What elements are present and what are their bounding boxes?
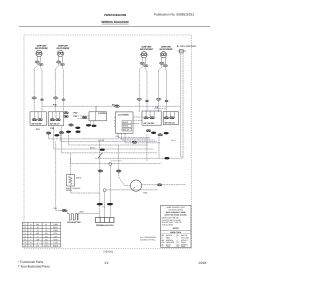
svg-text:INF SW LF: INF SW LF	[50, 123, 61, 126]
svg-text:BK-12: BK-12	[112, 103, 119, 106]
svg-text:LT-R: LT-R	[54, 242, 59, 245]
svg-text:TERMINAL BLOCK: TERMINAL BLOCK	[96, 224, 115, 227]
svg-text:WIRING DIAGRAM: WIRING DIAGRAM	[101, 20, 129, 24]
svg-text:MUST BE SAME GAUGE: MUST BE SAME GAUGE	[165, 213, 188, 216]
svg-text:TOD-LAMP ASSY: TOD-LAMP ASSY	[180, 45, 197, 48]
svg-text:P13: P13	[116, 135, 119, 138]
svg-text:0298: 0298	[199, 261, 207, 265]
svg-text:6: 6	[25, 238, 26, 241]
svg-text:W: W	[37, 226, 39, 229]
svg-text:4: 4	[25, 232, 26, 235]
svg-text:VWEF3024KWB: VWEF3024KWB	[104, 13, 127, 17]
svg-text:WIRE CODE: WIRE CODE	[170, 231, 182, 234]
svg-text:P31: P31	[36, 128, 40, 131]
svg-text:CLK/TIMER: CLK/TIMER	[118, 113, 129, 116]
svg-text:P24: P24	[53, 207, 57, 210]
svg-text:PWR: PWR	[53, 223, 58, 226]
svg-text:19: 19	[104, 261, 109, 265]
svg-text:INF SW RF: INF SW RF	[32, 123, 43, 126]
svg-text:2600W: 2600W	[66, 189, 72, 192]
svg-text:INF SW RR: INF SW RR	[144, 122, 155, 125]
svg-text:PWR: PWR	[53, 229, 58, 232]
svg-text:5: 5	[25, 235, 26, 238]
svg-text:-NOTE-: -NOTE-	[172, 227, 179, 230]
svg-text:P32: P32	[51, 127, 55, 130]
svg-text:P12: P12	[74, 112, 79, 115]
svg-text:BAKE: BAKE	[123, 121, 129, 124]
svg-text:AIR SHUTTER: AIR SHUTTER	[67, 221, 81, 224]
svg-text:Publication No: 5995526291: Publication No: 5995526291	[154, 12, 194, 16]
svg-text:7520061: 7520061	[103, 251, 114, 254]
svg-text:CLOCK: CLOCK	[98, 112, 106, 115]
svg-text:RELAY: RELAY	[123, 128, 130, 131]
svg-text:2: 2	[25, 226, 26, 229]
svg-text:SHOWN OFF POS.: SHOWN OFF POS.	[140, 238, 156, 241]
svg-text:NEUT: NEUT	[53, 226, 59, 229]
svg-text:W-14: W-14	[171, 139, 175, 142]
svg-text:BAKE: BAKE	[76, 177, 82, 180]
svg-text:LIMIT: LIMIT	[79, 211, 85, 214]
svg-text:TAN: TAN	[166, 245, 170, 248]
svg-text:INF SW LR: INF SW LR	[165, 122, 176, 125]
svg-text:8: 8	[25, 245, 26, 248]
svg-text:BAKE: BAKE	[53, 245, 59, 248]
svg-text:7: 7	[25, 242, 26, 245]
svg-text:BROIL: BROIL	[123, 125, 130, 128]
svg-text:P11: P11	[74, 115, 79, 118]
svg-text:P1: P1	[102, 206, 104, 209]
svg-text:L2: L2	[45, 229, 47, 232]
svg-text:BR-14: BR-14	[90, 147, 95, 150]
svg-text:L1: L1	[45, 223, 47, 226]
svg-text:3: 3	[25, 229, 26, 232]
svg-text:INSULATION: INSULATION	[162, 224, 174, 227]
svg-text:* Functional Parts: * Functional Parts	[18, 260, 44, 264]
svg-text:1: 1	[25, 223, 26, 226]
svg-text:RT-R: RT-R	[53, 238, 58, 241]
svg-text:† Non-Illustrated Parts: † Non-Illustrated Parts	[18, 264, 50, 268]
svg-text:PINK: PINK	[181, 245, 186, 248]
svg-text:OVN: OVN	[44, 245, 49, 248]
svg-text:FAN: FAN	[143, 191, 147, 194]
svg-text:BK-28: BK-28	[99, 139, 104, 142]
svg-text:UNLESS NOTED: UNLESS NOTED	[168, 208, 183, 211]
